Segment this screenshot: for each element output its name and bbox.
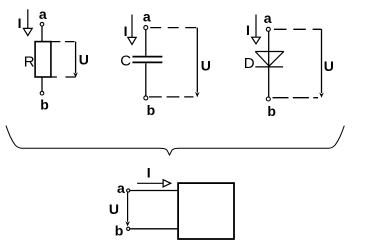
svg-text:a: a bbox=[264, 10, 272, 26]
svg-text:D: D bbox=[244, 55, 255, 72]
terminal a (bottom element) bbox=[127, 189, 130, 192]
current arrow I (element 1) bbox=[23, 9, 32, 35]
current arrow I (bottom element) bbox=[137, 180, 171, 187]
terminal b (bottom element) bbox=[127, 227, 130, 230]
brace (underbrace grouping the three elements) bbox=[6, 126, 344, 156]
terminal a (element 3) bbox=[266, 27, 270, 31]
terminal b (element 1) bbox=[40, 91, 44, 95]
svg-text:R: R bbox=[24, 53, 35, 70]
terminal a (element 1) bbox=[40, 22, 44, 26]
voltage U dashed line bottom (element 1) bbox=[51, 76, 76, 78]
voltage arrow U (bottom element) bbox=[125, 193, 130, 227]
voltage U dashed line top (element 2) bbox=[150, 27, 197, 29]
wire resistor to b bbox=[41, 77, 43, 91]
svg-text:a: a bbox=[143, 9, 151, 25]
voltage U dashed line top (element 1) bbox=[51, 41, 76, 43]
wire a to diode bbox=[268, 31, 270, 66]
voltage U dashed line top (element 3) bbox=[274, 28, 322, 30]
svg-text:I: I bbox=[147, 164, 151, 180]
svg-text:I: I bbox=[246, 22, 250, 38]
terminal b (element 3) bbox=[266, 97, 270, 101]
svg-text:C: C bbox=[120, 52, 131, 69]
voltage arrow U (element 2) bbox=[195, 28, 200, 98]
terminal a (element 2) bbox=[144, 26, 148, 30]
svg-text:a: a bbox=[39, 6, 47, 22]
svg-text:b: b bbox=[40, 96, 49, 112]
generic two-terminal element box bbox=[178, 183, 234, 239]
svg-text:a: a bbox=[117, 180, 125, 196]
diode D1 bbox=[255, 52, 283, 67]
resistor R1 box bbox=[35, 42, 51, 77]
svg-text:b: b bbox=[267, 103, 276, 119]
svg-text:I: I bbox=[124, 23, 128, 39]
wire a to capacitor bbox=[145, 30, 147, 56]
svg-text:b: b bbox=[115, 223, 124, 239]
wire a to box (bottom element) bbox=[130, 190, 178, 192]
svg-text:U: U bbox=[201, 57, 211, 73]
svg-text:I: I bbox=[18, 15, 22, 31]
voltage arrow U (element 1) bbox=[73, 42, 78, 78]
capacitor C1 plates bbox=[132, 57, 162, 63]
wire a to resistor bbox=[41, 26, 43, 41]
svg-text:U: U bbox=[324, 58, 334, 74]
voltage arrow U (element 3) bbox=[319, 29, 324, 97]
svg-text:U: U bbox=[79, 51, 89, 67]
svg-text:b: b bbox=[147, 102, 156, 118]
wire capacitor to b bbox=[145, 63, 147, 96]
wire b to box (bottom element) bbox=[130, 228, 178, 230]
voltage U dashed line bottom (element 2) bbox=[149, 96, 194, 98]
current arrow I (element 2) bbox=[128, 15, 136, 45]
svg-text:U: U bbox=[109, 201, 119, 217]
voltage U dashed line bottom (element 3) bbox=[273, 97, 319, 99]
terminal b (element 2) bbox=[144, 96, 148, 100]
current arrow I (element 3) bbox=[252, 15, 261, 44]
wire diode to b bbox=[268, 66, 270, 97]
